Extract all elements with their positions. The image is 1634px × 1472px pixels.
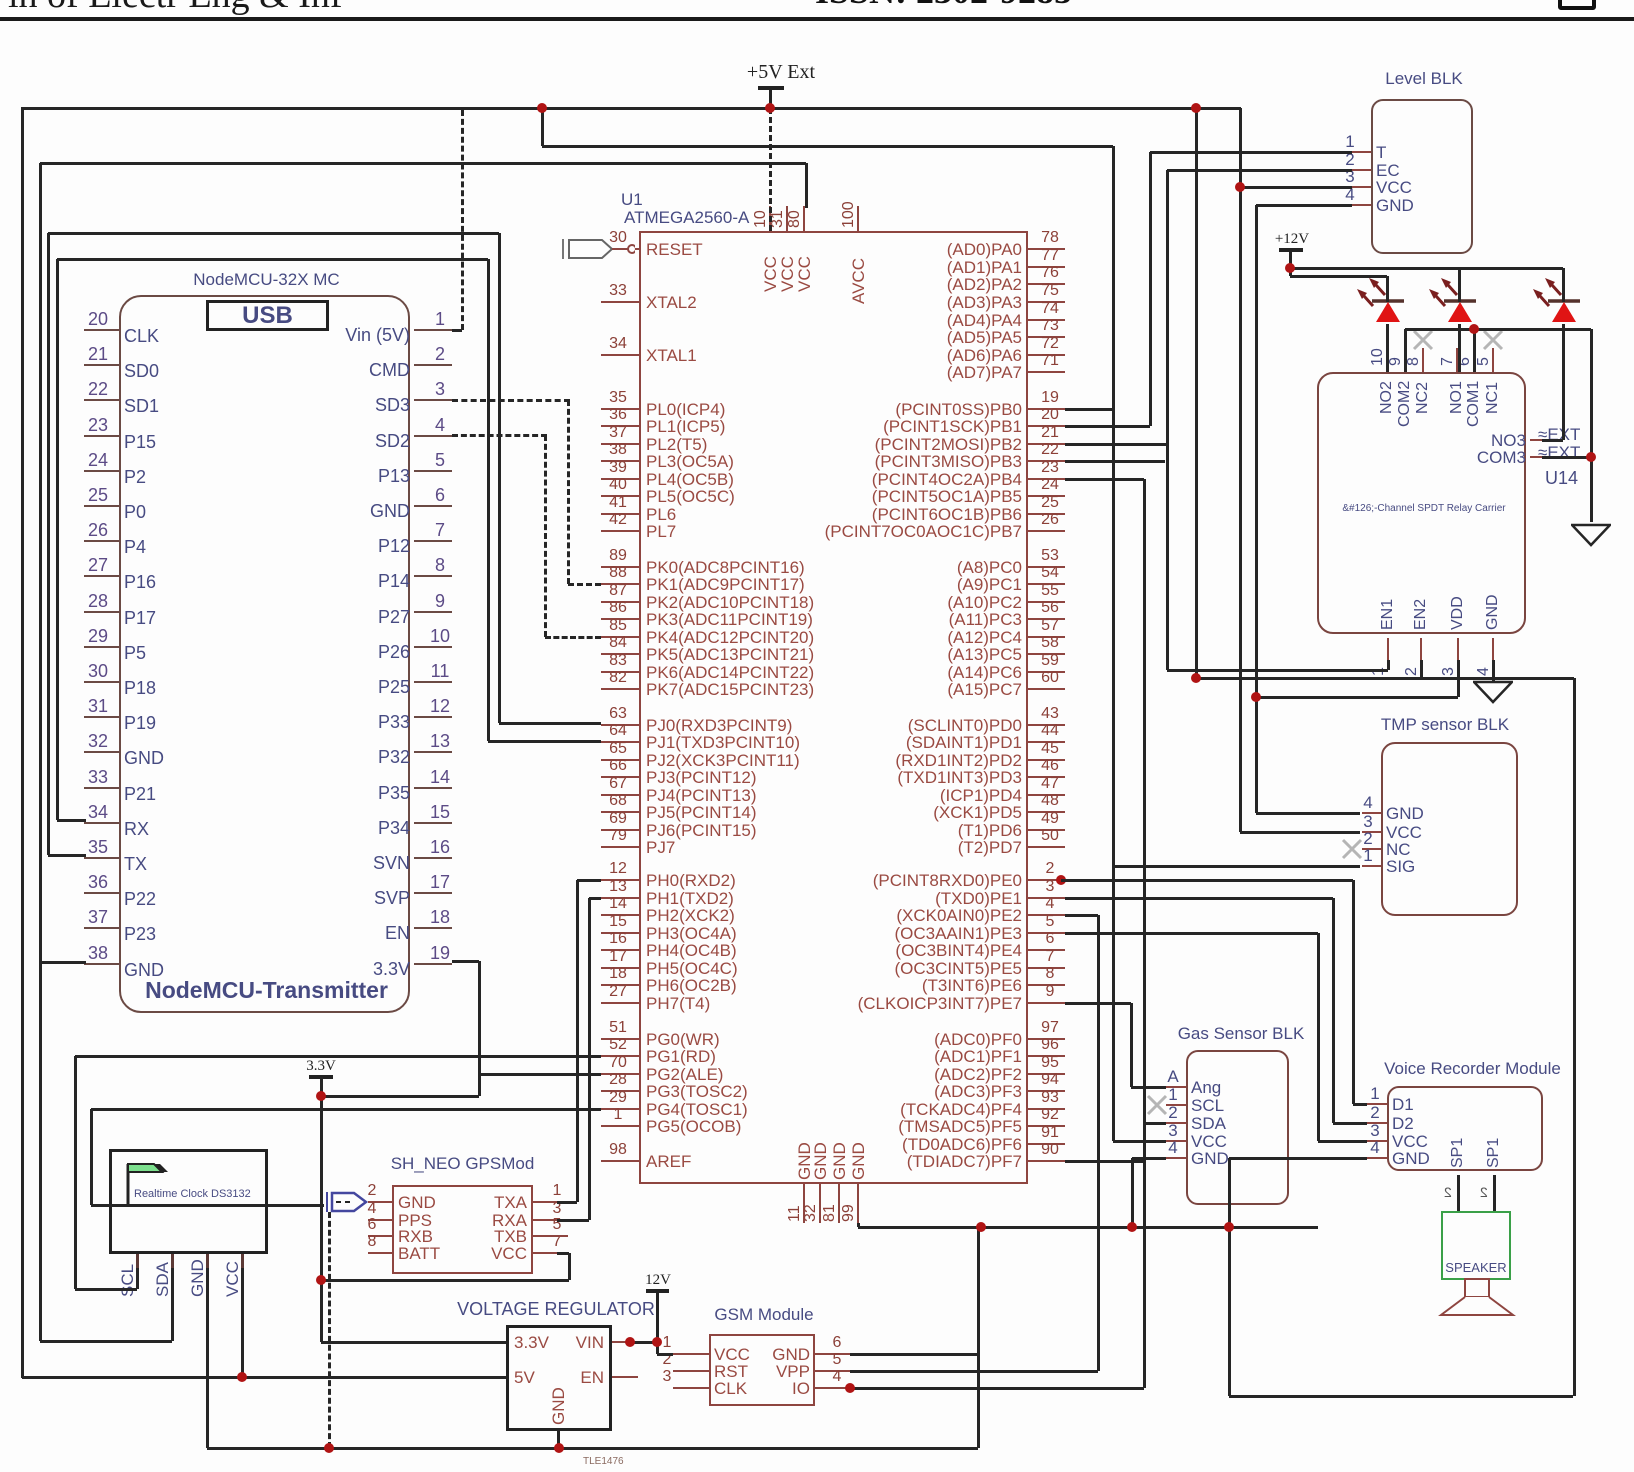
wire h163 to U1 pin 80 bbox=[40, 162, 806, 165]
wire +12V rail over LEDs bbox=[1290, 267, 1563, 270]
wire NodeMCU TX net bbox=[48, 854, 86, 857]
U1 pin 68 PJ5(PCINT14) bbox=[601, 811, 639, 813]
node +5V Ext bbox=[765, 103, 775, 113]
wire EN2 row h678 to right edge vertical bbox=[1196, 677, 1574, 680]
NodeMCU pin 4 SD2 bbox=[414, 435, 452, 437]
LED D2 (middle) bbox=[1417, 268, 1497, 326]
dashed GPS flag to bottom rail bbox=[328, 1212, 331, 1448]
VR pin GND bbox=[550, 1387, 567, 1425]
GPS pin 5 TXB bbox=[533, 1235, 557, 1237]
U1 pin 9 (CLKOICP3INT7)PE7 bbox=[1028, 1002, 1065, 1004]
wire PB1 row bbox=[1065, 425, 1150, 428]
GSM pin 3 CLK bbox=[673, 1387, 709, 1389]
net label ~EXT (COM3) bbox=[1538, 444, 1580, 462]
RTC pin SCL bbox=[136, 1254, 139, 1268]
RTC pin SDA bbox=[171, 1254, 174, 1268]
U1 pin 85 PK4(ADC12PCINT20) bbox=[601, 636, 639, 638]
U1 pin 88 PK1(ADC9PCINT17) bbox=[601, 583, 639, 585]
Level BLK title bbox=[1371, 70, 1477, 88]
U1 pin 97 (ADC0)PF0 bbox=[1028, 1038, 1065, 1040]
power symbol +12V bbox=[1262, 232, 1322, 248]
NodeMCU pin 18 EN bbox=[414, 927, 452, 929]
U1 pin 65 PJ2(XCK3PCINT11) bbox=[601, 759, 639, 761]
NodeMCU pin 3 SD3 bbox=[414, 399, 452, 401]
squiggle net labels on SP1 wires bbox=[1444, 1184, 1452, 1200]
Realtime Clock DS3132 module bbox=[109, 1149, 268, 1254]
U1 pin 49 (T1)PD6 bbox=[1028, 829, 1065, 831]
wire PE7 to Gas Ang bbox=[1065, 1002, 1131, 1005]
U1 pin 42 PL7 bbox=[601, 530, 639, 532]
wire GPS VCC to 3.3V rail bbox=[321, 1279, 569, 1282]
Voice pin 2 D2 bbox=[1367, 1122, 1387, 1124]
U14 refdes bbox=[1545, 469, 1578, 488]
wire NodeMCU 3.3V pin19 down bbox=[452, 960, 479, 963]
NodeMCU pin 36 P22 bbox=[84, 892, 119, 894]
NodeMCU pin 31 P19 bbox=[84, 716, 119, 718]
LED D1 (left) bbox=[1345, 268, 1425, 326]
VR title bbox=[436, 1300, 676, 1319]
node Level VCC bbox=[1235, 182, 1245, 192]
TLE1476 footer bbox=[583, 1457, 624, 1468]
relay top pin 9 COM2 bbox=[1404, 348, 1406, 372]
NodeMCU pin 19 3.3V bbox=[414, 963, 452, 965]
U1 pin 28 PG3(TOSC2) bbox=[601, 1090, 639, 1092]
wire +5V top rail bbox=[22, 107, 1241, 110]
U1 pin 8 (T3INT6)PE6 bbox=[1028, 984, 1065, 986]
U1 pin 94 (ADC3)PF3 bbox=[1028, 1090, 1065, 1092]
U1 pin 64 PJ1(TXD3PCINT10) bbox=[601, 741, 639, 743]
NodeMCU pin 34 RX bbox=[84, 822, 119, 824]
U1 pin 6 (OC3BINT4)PE4 bbox=[1028, 949, 1065, 951]
U1 pin 25 (PCINT6OC1B)PB6 bbox=[1028, 513, 1065, 515]
wire PG1 row to left bbox=[75, 1055, 601, 1058]
NodeMCU pin 27 P16 bbox=[84, 575, 119, 577]
wire PB4/PD0 vertical v1144 bbox=[1065, 478, 1144, 481]
speaker symbol bbox=[1438, 1277, 1516, 1319]
U1 pin 69 PJ6(PCINT15) bbox=[601, 829, 639, 831]
wire v1113 long middle vertical bbox=[1112, 146, 1115, 1141]
U1 pin 63 PJ0(RXD3PCINT9) bbox=[601, 724, 639, 726]
relay bottom pin 3 VDD bbox=[1457, 638, 1459, 660]
wire Level T row bbox=[1150, 151, 1352, 154]
GPS pin 8 BATT bbox=[368, 1252, 392, 1254]
RTC label bbox=[134, 1189, 251, 1201]
GPS pin 3 RXA bbox=[533, 1219, 557, 1221]
U1 pin 43 (SCLINT0)PD0 bbox=[1028, 724, 1065, 726]
node 5V/RTC VCC bbox=[237, 1372, 247, 1382]
Level BLK pin 4 GND bbox=[1352, 204, 1371, 206]
U1 pin 18 PH6(OC2B) bbox=[601, 984, 639, 986]
no-connect X on TMP pin 2 NC bbox=[1341, 838, 1363, 860]
Level BLK pin 2 EC bbox=[1352, 169, 1371, 171]
relay top pin 6 COM1 bbox=[1473, 348, 1475, 372]
U1 pin 77 (AD1)PA1 bbox=[1028, 266, 1065, 268]
GSM title bbox=[684, 1306, 844, 1324]
header ISSN bbox=[815, 0, 1072, 11]
U1 pin 34 XTAL1 bbox=[601, 354, 639, 356]
wire Level EC row bbox=[1167, 169, 1352, 172]
Gas pin 1 SCL bbox=[1166, 1104, 1186, 1106]
relay pin NO3 bbox=[1440, 432, 1526, 450]
U1 pin 96 (ADC1)PF1 bbox=[1028, 1055, 1065, 1057]
wire relay COM3 to ground bbox=[1542, 456, 1591, 459]
wire Level VCC row bbox=[1240, 186, 1352, 189]
U1 pin 52 PG1(RD) bbox=[601, 1055, 639, 1057]
U1 pin 59 (A14)PC6 bbox=[1028, 671, 1065, 673]
NodeMCU pin 11 P25 bbox=[414, 681, 452, 683]
Level BLK pin 1 T bbox=[1352, 151, 1371, 153]
LED D3 (right) bbox=[1521, 268, 1601, 326]
NodeMCU pin 28 P17 bbox=[84, 611, 119, 613]
wire Gas SDA row bbox=[1144, 1122, 1166, 1125]
wire Level GND vertical v1256 bbox=[1255, 205, 1258, 813]
wire right edge vertical v1574 bbox=[1573, 678, 1576, 1396]
U1 pin 89 PK0(ADC8PCINT16) bbox=[601, 566, 639, 568]
wire PH0 to GPS TXA bbox=[577, 879, 601, 882]
U1 pin 13 PH1(TXD2) bbox=[601, 897, 639, 899]
U1 pin 98 AREF bbox=[601, 1160, 639, 1162]
SPEAKER green box bbox=[1441, 1211, 1511, 1280]
U1 pin 50 (T2)PD7 bbox=[1028, 846, 1065, 848]
U1 pin 76 (AD2)PA2 bbox=[1028, 283, 1065, 285]
NodeMCU pin 33 P21 bbox=[84, 787, 119, 789]
node COM3/ground bbox=[1586, 452, 1596, 462]
relay top pin 7 NO1 bbox=[1456, 348, 1458, 372]
relay carrier U14 body bbox=[1317, 372, 1526, 634]
GPS input connector flag bbox=[324, 1190, 370, 1214]
relay bottom pin 2 EN2 bbox=[1420, 638, 1422, 660]
U1 pin 35 PL0(ICP4) bbox=[601, 408, 639, 410]
node +5V/A bbox=[537, 103, 547, 113]
TMP pin 3 VCC bbox=[1362, 831, 1381, 833]
U1 pin 23 (PCINT4OC2A)PB4 bbox=[1028, 478, 1065, 480]
U1 pin 37 PL2(T5) bbox=[601, 443, 639, 445]
NodeMCU-Transmitter label bbox=[119, 978, 414, 1002]
U1 pin 91 (TD0ADC6)PF6 bbox=[1028, 1143, 1065, 1145]
relay pin COM3 bbox=[1440, 449, 1526, 467]
U1 pin 38 PL3(OC5A) bbox=[601, 460, 639, 462]
wire RTC SCL net bbox=[136, 1268, 139, 1289]
NodeMCU pin 23 P15 bbox=[84, 435, 119, 437]
wire v1150 T to PB1 bbox=[1149, 152, 1152, 426]
wire Voice GND net bbox=[1229, 1157, 1367, 1160]
U1 pin 21 (PCINT2MOSI)PB2 bbox=[1028, 443, 1065, 445]
node bottom rail/VR GND bbox=[554, 1443, 564, 1453]
NodeMCU pin 14 P35 bbox=[414, 787, 452, 789]
U1 top pin 10 VCC/AVCC bbox=[769, 206, 771, 231]
TMP sensor BLK title bbox=[1355, 716, 1535, 734]
no-connect X on Gas pin 1 SCL bbox=[1146, 1094, 1168, 1116]
GSM pin 6 GND bbox=[815, 1353, 850, 1355]
U1 pin 39 PL4(OC5B) bbox=[601, 478, 639, 480]
wire PG4 to GPS connector bbox=[91, 1108, 601, 1111]
NodeMCU pin 22 SD1 bbox=[84, 399, 119, 401]
wire GSM IO row bbox=[850, 1387, 1144, 1390]
U1 pin 15 PH3(OC4A) bbox=[601, 932, 639, 934]
U1 pin 5 (OC3AAIN1)PE3 bbox=[1028, 932, 1065, 934]
NodeMCU pin 16 SVN bbox=[414, 857, 452, 859]
U1 pin 90 (TDIADC7)PF7 bbox=[1028, 1160, 1065, 1162]
Gas Sensor BLK title bbox=[1156, 1025, 1326, 1043]
U1 pin 44 (SDAINT1)PD1 bbox=[1028, 741, 1065, 743]
dashed wire +5V Ext to U1 pin 10 bbox=[769, 108, 772, 231]
wire TMP GND row bbox=[1256, 812, 1360, 815]
GSM pin 2 RST bbox=[673, 1370, 709, 1372]
node bottom rail/dashed bbox=[324, 1443, 334, 1453]
TMP sensor BLK module bbox=[1381, 742, 1518, 916]
GSM pin 1 VCC bbox=[673, 1353, 709, 1355]
U1 pin 55 (A10)PC2 bbox=[1028, 601, 1065, 603]
U1 value ATMEGA2560-A bbox=[624, 209, 749, 227]
NodeMCU pin 10 P26 bbox=[414, 646, 452, 648]
U1 pin 86 PK3(ADC11PCINT19) bbox=[601, 618, 639, 620]
no-connect X on relay pin 8 NC2 bbox=[1412, 329, 1434, 351]
RTC pin GND bbox=[206, 1254, 209, 1268]
wire TMP VCC row bbox=[1240, 831, 1360, 834]
U1 pin 30 RESET bbox=[601, 248, 639, 250]
Voice pin 1 D1 bbox=[1367, 1103, 1387, 1105]
SP1 wires to speaker bbox=[1457, 1175, 1460, 1213]
wire PE1 to Voice D2 bbox=[1065, 897, 1333, 900]
node EN2 bbox=[1191, 673, 1201, 683]
Voice pin 3 VCC bbox=[1367, 1140, 1387, 1142]
Level BLK pin 3 VCC bbox=[1352, 186, 1371, 188]
NodeMCU-32X MC module U? bbox=[119, 295, 410, 1013]
NodeMCU pin 38 GND bbox=[84, 963, 119, 965]
Gas Sensor BLK module bbox=[1186, 1050, 1289, 1205]
U1 pin 70 PG2(ALE) bbox=[601, 1073, 639, 1075]
U1 pin 36 PL1(ICP5) bbox=[601, 425, 639, 427]
wire GSM GND row to v978 bbox=[850, 1353, 978, 1356]
wire PH1 to GPS RXA bbox=[589, 897, 601, 900]
net label ~EXT (NO3) bbox=[1538, 426, 1580, 444]
U1 pin 92 (TMSADC5)PF5 bbox=[1028, 1125, 1065, 1127]
NodeMCU pin 32 GND bbox=[84, 751, 119, 753]
U1 bottom pin 99 GND bbox=[857, 1184, 859, 1223]
wire PE3 to Voice VCC bbox=[1065, 932, 1318, 935]
wire ATMEGA GND rail bbox=[857, 1223, 860, 1227]
dashed Vin(5V) riser bbox=[461, 110, 464, 330]
wire corner v1240 to Level VCC bbox=[1239, 108, 1242, 832]
NodeMCU pin 1 Vin (5V) bbox=[414, 329, 452, 331]
relay bottom pin 1 EN1 bbox=[1387, 638, 1389, 660]
node +5V/B bbox=[1191, 103, 1201, 113]
wire 3.3V to PG2 jog bbox=[321, 1095, 479, 1098]
U1 pin 58 (A13)PC5 bbox=[1028, 653, 1065, 655]
Voice pin SP1 bbox=[1450, 1138, 1466, 1168]
U1 pin 83 PK6(ADC14PCINT22) bbox=[601, 671, 639, 673]
power symbol 3.3V bbox=[293, 1059, 349, 1075]
U1 pin 12 PH0(RXD2) bbox=[601, 879, 639, 881]
VR pin EN bbox=[568, 1369, 604, 1387]
NodeMCU pin 30 P18 bbox=[84, 681, 119, 683]
node relay COM1 rail bbox=[1469, 324, 1479, 334]
U1 pin 87 PK2(ADC10PCINT18) bbox=[601, 601, 639, 603]
Voice Recorder title bbox=[1380, 1060, 1565, 1078]
GPS pin 2 GND bbox=[368, 1201, 392, 1203]
NodeMCU pin 8 P14 bbox=[414, 575, 452, 577]
U1 pin 71 (AD7)PA7 bbox=[1028, 371, 1065, 373]
Voice Recorder Module bbox=[1387, 1086, 1543, 1171]
U1 pin 20 (PCINT1SCK)PB1 bbox=[1028, 425, 1065, 427]
wire v1196 from +5V bbox=[1195, 108, 1198, 678]
U1 pin 22 (PCINT3MISO)PB3 bbox=[1028, 460, 1065, 462]
no-connect X on relay pin 5 NC1 bbox=[1482, 329, 1504, 351]
U1 top pin 80 VCC/AVCC bbox=[803, 206, 805, 231]
relay top pin 10 NO2 bbox=[1386, 348, 1388, 372]
U1 pin 75 (AD3)PA3 bbox=[1028, 301, 1065, 303]
NodeMCU pin 5 P13 bbox=[414, 470, 452, 472]
junction PE0 bbox=[1056, 875, 1066, 885]
U1 pin 53 (A8)PC0 bbox=[1028, 566, 1065, 568]
VOLTAGE REGULATOR module bbox=[506, 1325, 612, 1431]
wire RTC GND down bbox=[206, 1268, 209, 1448]
relay top pin 8 NC2 bbox=[1422, 348, 1424, 372]
NodeMCU pin 6 GND bbox=[414, 505, 452, 507]
wire 3.3V rail vertical bbox=[320, 1077, 323, 1342]
wire Gas GND vertical bbox=[1132, 1157, 1166, 1160]
U1 pin 24 (PCINT5OC1A)PB5 bbox=[1028, 495, 1065, 497]
NodeMCU pin 15 P34 bbox=[414, 822, 452, 824]
relay inside label bbox=[1323, 504, 1525, 515]
U1 pin 57 (A12)PC4 bbox=[1028, 636, 1065, 638]
Gas pin 3 VCC bbox=[1166, 1140, 1186, 1142]
NodeMCU pin 17 SVP bbox=[414, 892, 452, 894]
NodeMCU pin 29 P5 bbox=[84, 646, 119, 648]
U1 pin 66 PJ3(PCINT12) bbox=[601, 776, 639, 778]
U1 pin 19 (PCINT0SS)PB0 bbox=[1028, 408, 1065, 410]
wire NodeMCU RX net bbox=[57, 819, 86, 822]
wire PF7 pin90 row bbox=[1065, 1160, 1144, 1163]
node 3.3V/A bbox=[316, 1091, 326, 1101]
U1 pin 56 (A11)PC3 bbox=[1028, 618, 1065, 620]
VR pin 3.3V bbox=[514, 1334, 549, 1352]
NodeMCU pin 35 TX bbox=[84, 857, 119, 859]
U1 pin 1 PG5(OCOB) bbox=[601, 1125, 639, 1127]
wire RTC SDA net bbox=[171, 1268, 174, 1341]
U1 pin 2 (PCINT8RXD0)PE0 bbox=[1028, 879, 1065, 881]
U1 pin 29 PG4(TOSC1) bbox=[601, 1108, 639, 1110]
NodeMCU pin 13 P32 bbox=[414, 751, 452, 753]
ground under relay GND pin bbox=[1492, 660, 1495, 682]
NodeMCU pin 12 P33 bbox=[414, 716, 452, 718]
U1 pin 95 (ADC2)PF2 bbox=[1028, 1073, 1065, 1075]
node GSM IO bbox=[845, 1383, 855, 1393]
RTC pin VCC bbox=[241, 1254, 244, 1268]
GPS pin 4 PPS bbox=[368, 1219, 392, 1221]
wire PB2 row bbox=[1065, 443, 1167, 446]
U1 pin 41 PL6 bbox=[601, 513, 639, 515]
RESET input connector flag bbox=[560, 236, 635, 262]
wire v1167 EC/PB2 bbox=[1166, 170, 1169, 670]
NodeMCU pin 20 CLK bbox=[84, 329, 119, 331]
TMP pin 1 SIG bbox=[1362, 865, 1381, 867]
U1 pin 82 PK7(ADC15PCINT23) bbox=[601, 688, 639, 690]
wire v978 GND rail to bottom bbox=[977, 1227, 980, 1448]
wire relay VDD row h697 bbox=[1256, 696, 1458, 699]
U1 pin 46 (TXD1INT3)PD3 bbox=[1028, 776, 1065, 778]
header icon bbox=[1558, 0, 1596, 10]
Voice pin 4 GND bbox=[1367, 1157, 1387, 1159]
node +12V bbox=[1285, 263, 1295, 273]
GSM pin 4 IO bbox=[815, 1387, 850, 1389]
U1 pin 60 (A15)PC7 bbox=[1028, 688, 1065, 690]
SH_NEO GPSMod module bbox=[392, 1185, 533, 1274]
Level BLK module bbox=[1371, 99, 1473, 254]
wire 3.3V to VR bbox=[321, 1341, 506, 1344]
node 3.3V/GPS bbox=[316, 1275, 326, 1285]
wire RTC VCC down to 5V rail bbox=[241, 1268, 244, 1377]
U1 pin 84 PK5(ADC13PCINT21) bbox=[601, 653, 639, 655]
NodeMCU pin 7 P12 bbox=[414, 540, 452, 542]
U1 bottom pin 11 GND bbox=[803, 1184, 805, 1223]
GSM Module bbox=[709, 1334, 815, 1406]
U1 bottom pin 81 GND bbox=[838, 1184, 840, 1223]
U1 pin 73 (AD5)PA5 bbox=[1028, 336, 1065, 338]
NodeMCU title bbox=[119, 271, 414, 289]
U1 refdes bbox=[621, 191, 643, 209]
NodeMCU pin 2 CMD bbox=[414, 364, 452, 366]
node GND rail B bbox=[1127, 1222, 1137, 1232]
TMP pin 2 NC bbox=[1362, 848, 1381, 850]
U1 bottom pin 32 GND bbox=[819, 1184, 821, 1223]
U1 pin 78 (AD0)PA0 bbox=[1028, 248, 1065, 250]
NodeMCU pin 37 P23 bbox=[84, 927, 119, 929]
wire GSM VPP net v1098 bbox=[1065, 914, 1098, 917]
relay top pin 5 NC1 bbox=[1492, 348, 1494, 372]
header journal name bbox=[8, 0, 343, 16]
TMP pin 4 GND bbox=[1362, 812, 1381, 814]
node GND rail C bbox=[1224, 1222, 1234, 1232]
U1 pin 79 PJ7 bbox=[601, 846, 639, 848]
wire 5V bottom rail to regulator bbox=[22, 1376, 506, 1379]
GPS pin 6 RXB bbox=[368, 1235, 392, 1237]
node VIN A bbox=[625, 1337, 635, 1347]
U1 pin 3 (TXD0)PE1 bbox=[1028, 897, 1065, 899]
node GND rail A bbox=[976, 1222, 986, 1232]
U1 pin 72 (AD6)PA6 bbox=[1028, 354, 1065, 356]
U1 pin 54 (A9)PC1 bbox=[1028, 583, 1065, 585]
wire relay pins 9/6 rail h329 bbox=[1405, 328, 1591, 331]
Voice pin SP1 (2) bbox=[1486, 1138, 1502, 1168]
wire left frame vertical bbox=[21, 107, 24, 1378]
ground symbol right of relay bbox=[1571, 523, 1611, 547]
wire branch x542 down bbox=[541, 108, 544, 146]
U1 pin 48 (XCK1)PD5 bbox=[1028, 811, 1065, 813]
Gas pin 2 SDA bbox=[1166, 1122, 1186, 1124]
wire Gas VCC row bbox=[1113, 1140, 1166, 1143]
wire h146 to x1113 bbox=[542, 145, 1113, 148]
U1 pin 4 (XCK0AIN0)PE2 bbox=[1028, 914, 1065, 916]
dashed SD3 to PK1 bbox=[452, 399, 570, 402]
NodeMCU pin 21 SD0 bbox=[84, 364, 119, 366]
wire PB0 row bbox=[1065, 408, 1113, 411]
LED anode leads bbox=[1386, 324, 1389, 372]
Gas pin A Ang bbox=[1166, 1086, 1186, 1088]
GPS pin 7 VCC bbox=[533, 1252, 557, 1254]
U1 pin 67 PJ4(PCINT13) bbox=[601, 794, 639, 796]
NodeMCU USB connector box bbox=[206, 300, 329, 331]
LED cathode feeds bbox=[1386, 276, 1389, 302]
GPS title bbox=[380, 1155, 545, 1173]
ground symbol below relay GND bbox=[1473, 680, 1513, 704]
power symbol +5V Ext bbox=[716, 62, 846, 83]
NodeMCU pin 9 P27 bbox=[414, 611, 452, 613]
wire PB3 row bbox=[1065, 460, 1165, 463]
NodeMCU pin 25 P0 bbox=[84, 505, 119, 507]
U1 pin 26 (PCINT7OC0AOC1C)PB7 bbox=[1028, 530, 1065, 532]
GPS pin 1 TXA bbox=[533, 1201, 557, 1203]
